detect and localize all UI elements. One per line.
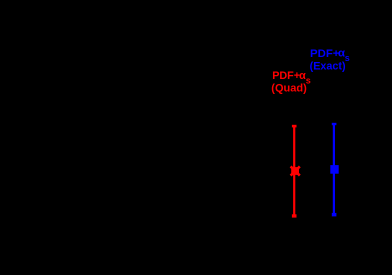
- blue top cap: [332, 123, 337, 125]
- svg-text:(Quad): (Quad): [271, 83, 307, 95]
- error bar red (Quad): [291, 125, 300, 218]
- red bottom cap: [292, 214, 297, 217]
- wire: red vertical error line: [293, 126, 295, 216]
- error bar blue (Exact): [330, 123, 338, 217]
- blue marker full square: [330, 165, 338, 174]
- wire: blue vertical error line: [333, 124, 335, 215]
- label PDF+as (Exact) blue: [310, 47, 350, 72]
- red top cap: [292, 125, 297, 128]
- red marker square with star points: [291, 167, 299, 175]
- svg-text:(Exact): (Exact): [310, 60, 346, 72]
- label PDF+as (Quad) red: [271, 70, 310, 95]
- blue bottom cap: [332, 213, 337, 217]
